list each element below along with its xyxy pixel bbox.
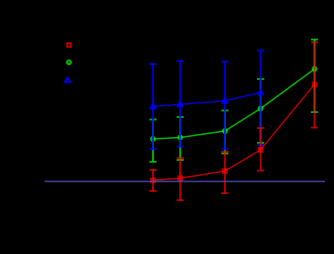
- green errorbar col5: [311, 40, 318, 113]
- green series G: error bars: [149, 40, 318, 162]
- blue errorbar col2: [177, 61, 184, 147]
- blue triangle markers: [150, 90, 263, 109]
- legend blue triangle marker: [65, 77, 71, 82]
- blue series line: [153, 92, 261, 106]
- blue errorbar col3: [221, 62, 228, 150]
- blue errorbar col4: [257, 51, 264, 146]
- red series R: error bars: [149, 42, 318, 200]
- blue series B: error bars: [149, 51, 264, 150]
- green errorbar col1: [149, 120, 156, 162]
- green circle markers: [151, 67, 316, 141]
- green errorbar col3: [221, 111, 228, 154]
- red errorbar col2: [177, 158, 184, 200]
- red square markers: [151, 83, 316, 182]
- legend red square marker: [67, 43, 71, 47]
- red errorbar col5: [311, 42, 318, 127]
- red errorbar col3: [221, 152, 228, 193]
- green series line: [153, 69, 315, 139]
- red errorbar col4: [257, 128, 264, 171]
- red series line: [153, 84, 315, 180]
- green errorbar col2: [177, 117, 184, 160]
- legend green circle marker: [67, 60, 71, 64]
- green errorbar col4: [257, 79, 264, 143]
- red errorbar col1: [149, 170, 156, 191]
- blue errorbar col1: [149, 64, 156, 149]
- x zero-axis line (navy, drawn last): [45, 180, 326, 182]
